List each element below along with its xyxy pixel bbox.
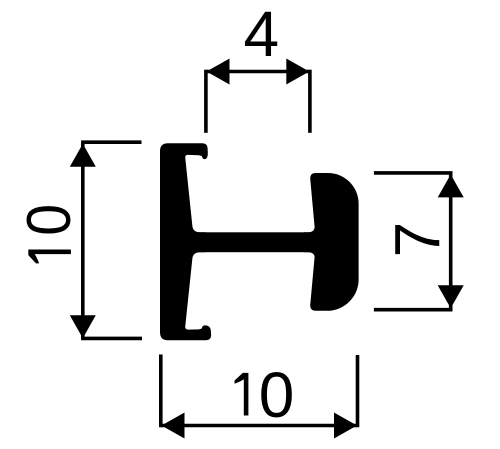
svg-text:4: 4	[244, 0, 280, 70]
svg-text:7: 7	[381, 222, 453, 258]
svg-text:0: 0	[259, 359, 295, 431]
svg-text:0: 0	[14, 204, 84, 236]
